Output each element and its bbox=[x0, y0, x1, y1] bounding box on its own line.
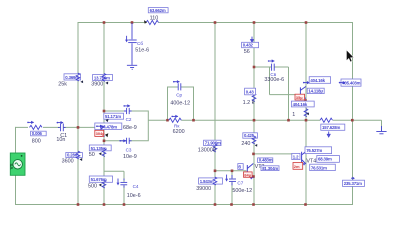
svg-text:0.432: 0.432 bbox=[243, 43, 254, 48]
svg-text:500e-12: 500e-12 bbox=[232, 188, 252, 194]
svg-text:68e-9: 68e-9 bbox=[123, 125, 137, 131]
svg-text:1.2 k: 1.2 k bbox=[243, 100, 255, 106]
svg-text:Ср: Ср bbox=[176, 93, 182, 98]
svg-text:157.628m: 157.628m bbox=[322, 125, 340, 130]
svg-text:С7: С7 bbox=[237, 181, 243, 186]
svg-text:56: 56 bbox=[244, 49, 250, 55]
svg-text:10n: 10n bbox=[56, 137, 65, 143]
svg-text:10e-9: 10e-9 bbox=[123, 154, 137, 160]
svg-text:С4: С4 bbox=[133, 184, 139, 189]
svg-text:130000: 130000 bbox=[198, 147, 216, 153]
svg-text:0.006: 0.006 bbox=[32, 131, 43, 136]
svg-text:10e-6: 10e-6 bbox=[127, 193, 141, 199]
svg-text:110: 110 bbox=[150, 15, 159, 21]
svg-text:0.483m: 0.483m bbox=[259, 158, 273, 163]
svg-text:2m: 2m bbox=[294, 164, 300, 169]
svg-text:51.171m: 51.171m bbox=[105, 114, 121, 119]
svg-text:235.371m: 235.371m bbox=[344, 181, 362, 186]
svg-text:68.39m: 68.39m bbox=[318, 157, 332, 162]
svg-text:76.527m: 76.527m bbox=[306, 148, 322, 153]
svg-text:25k: 25k bbox=[58, 82, 67, 88]
svg-text:404.16k: 404.16k bbox=[293, 102, 308, 107]
svg-text:1.2: 1.2 bbox=[293, 154, 299, 159]
svg-text:VT4: VT4 bbox=[306, 158, 316, 164]
svg-text:3300e-6: 3300e-6 bbox=[264, 77, 284, 83]
svg-text:1: 1 bbox=[292, 112, 295, 118]
svg-text:3900: 3900 bbox=[91, 82, 103, 88]
svg-text:С3: С3 bbox=[126, 148, 132, 153]
svg-text:0.43: 0.43 bbox=[246, 90, 255, 95]
svg-text:63.662m: 63.662m bbox=[150, 8, 166, 13]
svg-text:3600: 3600 bbox=[62, 158, 74, 164]
svg-text:0.425: 0.425 bbox=[244, 133, 255, 138]
svg-text:С2: С2 bbox=[126, 117, 132, 122]
svg-text:400e-12: 400e-12 bbox=[170, 100, 190, 106]
svg-text:6200: 6200 bbox=[173, 129, 185, 135]
svg-text:304µ: 304µ bbox=[96, 131, 106, 136]
svg-text:404.16k: 404.16k bbox=[310, 78, 325, 83]
svg-text:39000: 39000 bbox=[196, 186, 211, 192]
svg-text:35µ: 35µ bbox=[296, 95, 303, 100]
svg-text:81.304m: 81.304m bbox=[262, 166, 278, 171]
svg-text:50: 50 bbox=[89, 152, 95, 158]
svg-text:800: 800 bbox=[32, 139, 41, 145]
svg-text:84µ: 84µ bbox=[244, 172, 251, 177]
svg-text:VS: VS bbox=[9, 163, 14, 169]
svg-text:51e-6: 51e-6 bbox=[135, 48, 149, 54]
svg-text:Сб: Сб bbox=[137, 41, 143, 46]
svg-text:76.531m: 76.531m bbox=[311, 165, 327, 170]
svg-text:71.906m: 71.906m bbox=[205, 141, 221, 146]
svg-text:1.843m: 1.843m bbox=[200, 179, 214, 184]
svg-text:240: 240 bbox=[241, 141, 250, 147]
svg-text:500: 500 bbox=[88, 183, 97, 189]
svg-text:14.118µ: 14.118µ bbox=[308, 89, 323, 94]
